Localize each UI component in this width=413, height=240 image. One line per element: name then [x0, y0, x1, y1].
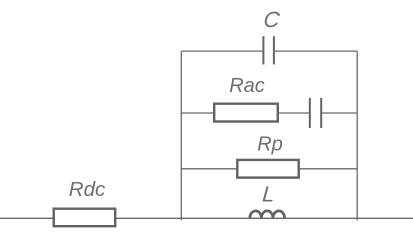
svg-text:Rp: Rp: [257, 134, 283, 156]
svg-text:C: C: [263, 7, 282, 32]
svg-text:Rdc: Rdc: [69, 178, 106, 201]
svg-text:L: L: [262, 182, 276, 207]
svg-text:Rac: Rac: [229, 75, 265, 97]
